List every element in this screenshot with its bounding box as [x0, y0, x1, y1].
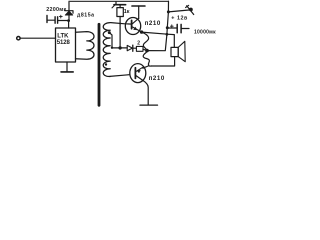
svg-text:2200мк: 2200мк — [46, 7, 66, 13]
wire bias line — [112, 47, 127, 49]
svg-text:п210: п210 — [149, 75, 165, 82]
node emitter line crossing — [166, 33, 169, 36]
ground bar — [140, 104, 158, 106]
ground below box — [61, 71, 73, 73]
wire squiggle to VT2 collector — [143, 66, 149, 69]
resistor R2 2 — [136, 46, 143, 51]
node winding blob — [105, 63, 107, 65]
node bias junction R1 — [118, 46, 121, 49]
node +12 tap — [167, 10, 170, 13]
node D emitter-collector junction — [145, 49, 149, 53]
node tap corner — [111, 47, 113, 49]
wire R2 to node D — [143, 49, 147, 50]
wire box bottom stub — [66, 62, 68, 72]
wire input to box — [21, 37, 56, 39]
wire collector T-bar of VT1 — [132, 5, 145, 7]
node input terminal — [17, 37, 20, 40]
wire secondary bottom tap to VT2 base — [110, 75, 130, 77]
wire emitter VT2 down — [142, 80, 148, 105]
node R1 base crossing — [119, 23, 121, 25]
resistor R1 1к trimmer — [115, 2, 117, 5]
wire +12 rail drop — [147, 1, 169, 51]
speaker BA1 — [171, 47, 178, 56]
wire +12в feed — [168, 10, 189, 12]
svg-text:2: 2 — [137, 40, 140, 46]
wire box top stub to node — [68, 21, 70, 28]
inductor primary winding — [76, 32, 95, 60]
wire speaker bottom — [151, 57, 174, 66]
wire R1 bottom down to bias line — [119, 17, 121, 48]
wire emitter VT1 to speaker top — [142, 32, 175, 47]
svg-text:LTK: LTK — [57, 34, 69, 40]
svg-text:п210: п210 — [145, 20, 161, 27]
wire top rail — [69, 0, 169, 2]
node cap tap — [166, 26, 169, 29]
capacitor C2 10000мк — [167, 27, 176, 29]
capacitor C1 2200мк — [46, 16, 48, 23]
transistor VT2 п210 — [130, 64, 146, 83]
node junction cap/zener — [67, 19, 70, 22]
transformer T1 core — [98, 24, 101, 105]
zener diode VD1 д815а — [68, 15, 70, 21]
wire middle tap to bias line — [109, 33, 112, 48]
svg-text:+ 12в: + 12в — [171, 16, 188, 22]
switch SA1 — [190, 8, 193, 11]
transistor VT1 п210 — [125, 18, 140, 35]
wire base lead VT1 from winding — [111, 23, 132, 25]
svg-text:10000мк: 10000мк — [194, 30, 216, 36]
svg-text:д815а: д815а — [77, 12, 95, 18]
node emitter VT1 — [140, 30, 143, 33]
node secondary upper tap — [108, 31, 111, 34]
svg-text:1к: 1к — [124, 9, 130, 15]
wire wavy emitter VT1 down to node D and VT2 — [142, 32, 152, 66]
op-amp U1 box LTK 5128 — [56, 28, 76, 62]
svg-text:5128: 5128 — [57, 40, 71, 46]
diode VD2 — [127, 45, 132, 50]
inductor secondary winding — [103, 23, 110, 77]
